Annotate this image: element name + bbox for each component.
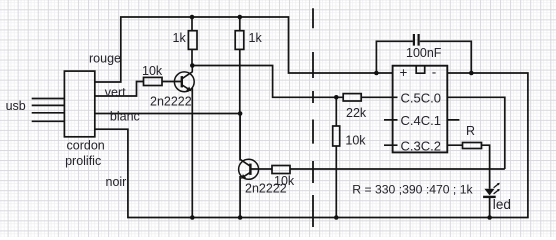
svg-text:blanc: blanc <box>110 110 140 124</box>
svg-text:10k: 10k <box>345 134 366 148</box>
svg-text:10k: 10k <box>274 174 295 188</box>
svg-text:2n2222: 2n2222 <box>150 95 192 109</box>
svg-text:R: R <box>466 124 475 138</box>
svg-text:rouge: rouge <box>89 51 121 65</box>
svg-text:22k: 22k <box>346 106 367 120</box>
svg-text:cordon: cordon <box>67 138 105 152</box>
svg-text:1k: 1k <box>173 31 187 45</box>
svg-text:usb: usb <box>6 99 26 113</box>
svg-text:100nF: 100nF <box>406 46 442 60</box>
svg-text:C.4C.1: C.4C.1 <box>401 113 441 128</box>
svg-text:noir: noir <box>106 175 127 189</box>
svg-text:C.3C.2: C.3C.2 <box>401 138 441 153</box>
svg-text:+: + <box>400 65 408 80</box>
svg-text:-: - <box>432 65 437 80</box>
svg-text:10k: 10k <box>142 64 163 78</box>
svg-text:led: led <box>493 197 511 212</box>
svg-text:C.5C.0: C.5C.0 <box>401 91 441 106</box>
svg-text:1k: 1k <box>249 31 263 45</box>
svg-text:prolific: prolific <box>65 154 101 168</box>
svg-text:vert: vert <box>105 85 126 99</box>
svg-text:R = 330 ;390 :470 ; 1k: R = 330 ;390 :470 ; 1k <box>352 183 473 197</box>
